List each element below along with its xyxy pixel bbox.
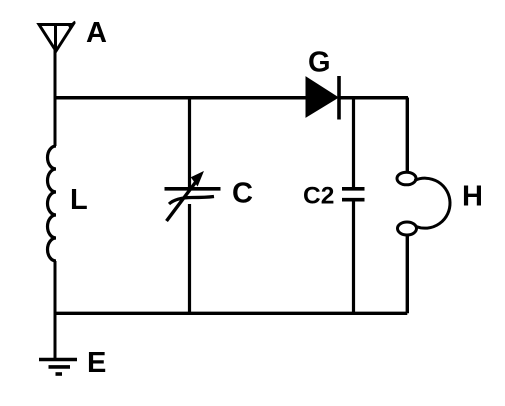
wire: bottom-left junction to ground — [54, 313, 57, 358]
variable capacitor C — [165, 172, 221, 221]
antenna A — [39, 22, 75, 52]
wire: top horizontal (left junction to diode anode) — [55, 96, 306, 100]
svg-text:C: C — [232, 178, 253, 210]
capacitor C2 — [342, 189, 365, 200]
svg-text:G: G — [308, 47, 331, 79]
inductor L — [48, 146, 57, 261]
svg-text:E: E — [87, 347, 106, 379]
wire: antenna to top-left junction — [54, 50, 57, 98]
wire: C2 branch top vertical — [352, 98, 355, 188]
wire: C2 branch bottom vertical — [352, 201, 355, 315]
wire: right vertical top (corner to earphone) — [406, 98, 409, 174]
earphone H — [397, 172, 450, 235]
wire: bottom horizontal — [55, 312, 407, 315]
wire: diode cathode to top-right corner — [339, 96, 408, 100]
wire: C branch top vertical — [188, 98, 191, 189]
svg-text:C2: C2 — [303, 183, 334, 210]
wire: left vertical (junction to coil top) — [54, 98, 57, 147]
wire: coil bottom to bottom-left junction — [54, 261, 57, 314]
diode G — [306, 76, 339, 120]
svg-text:L: L — [70, 184, 88, 216]
svg-text:H: H — [462, 181, 483, 213]
wire: C branch bottom vertical — [188, 204, 191, 314]
ground E — [39, 360, 77, 375]
svg-text:A: A — [86, 17, 107, 49]
wire: right vertical bottom (earphone to bottom-right corner) — [406, 235, 409, 314]
